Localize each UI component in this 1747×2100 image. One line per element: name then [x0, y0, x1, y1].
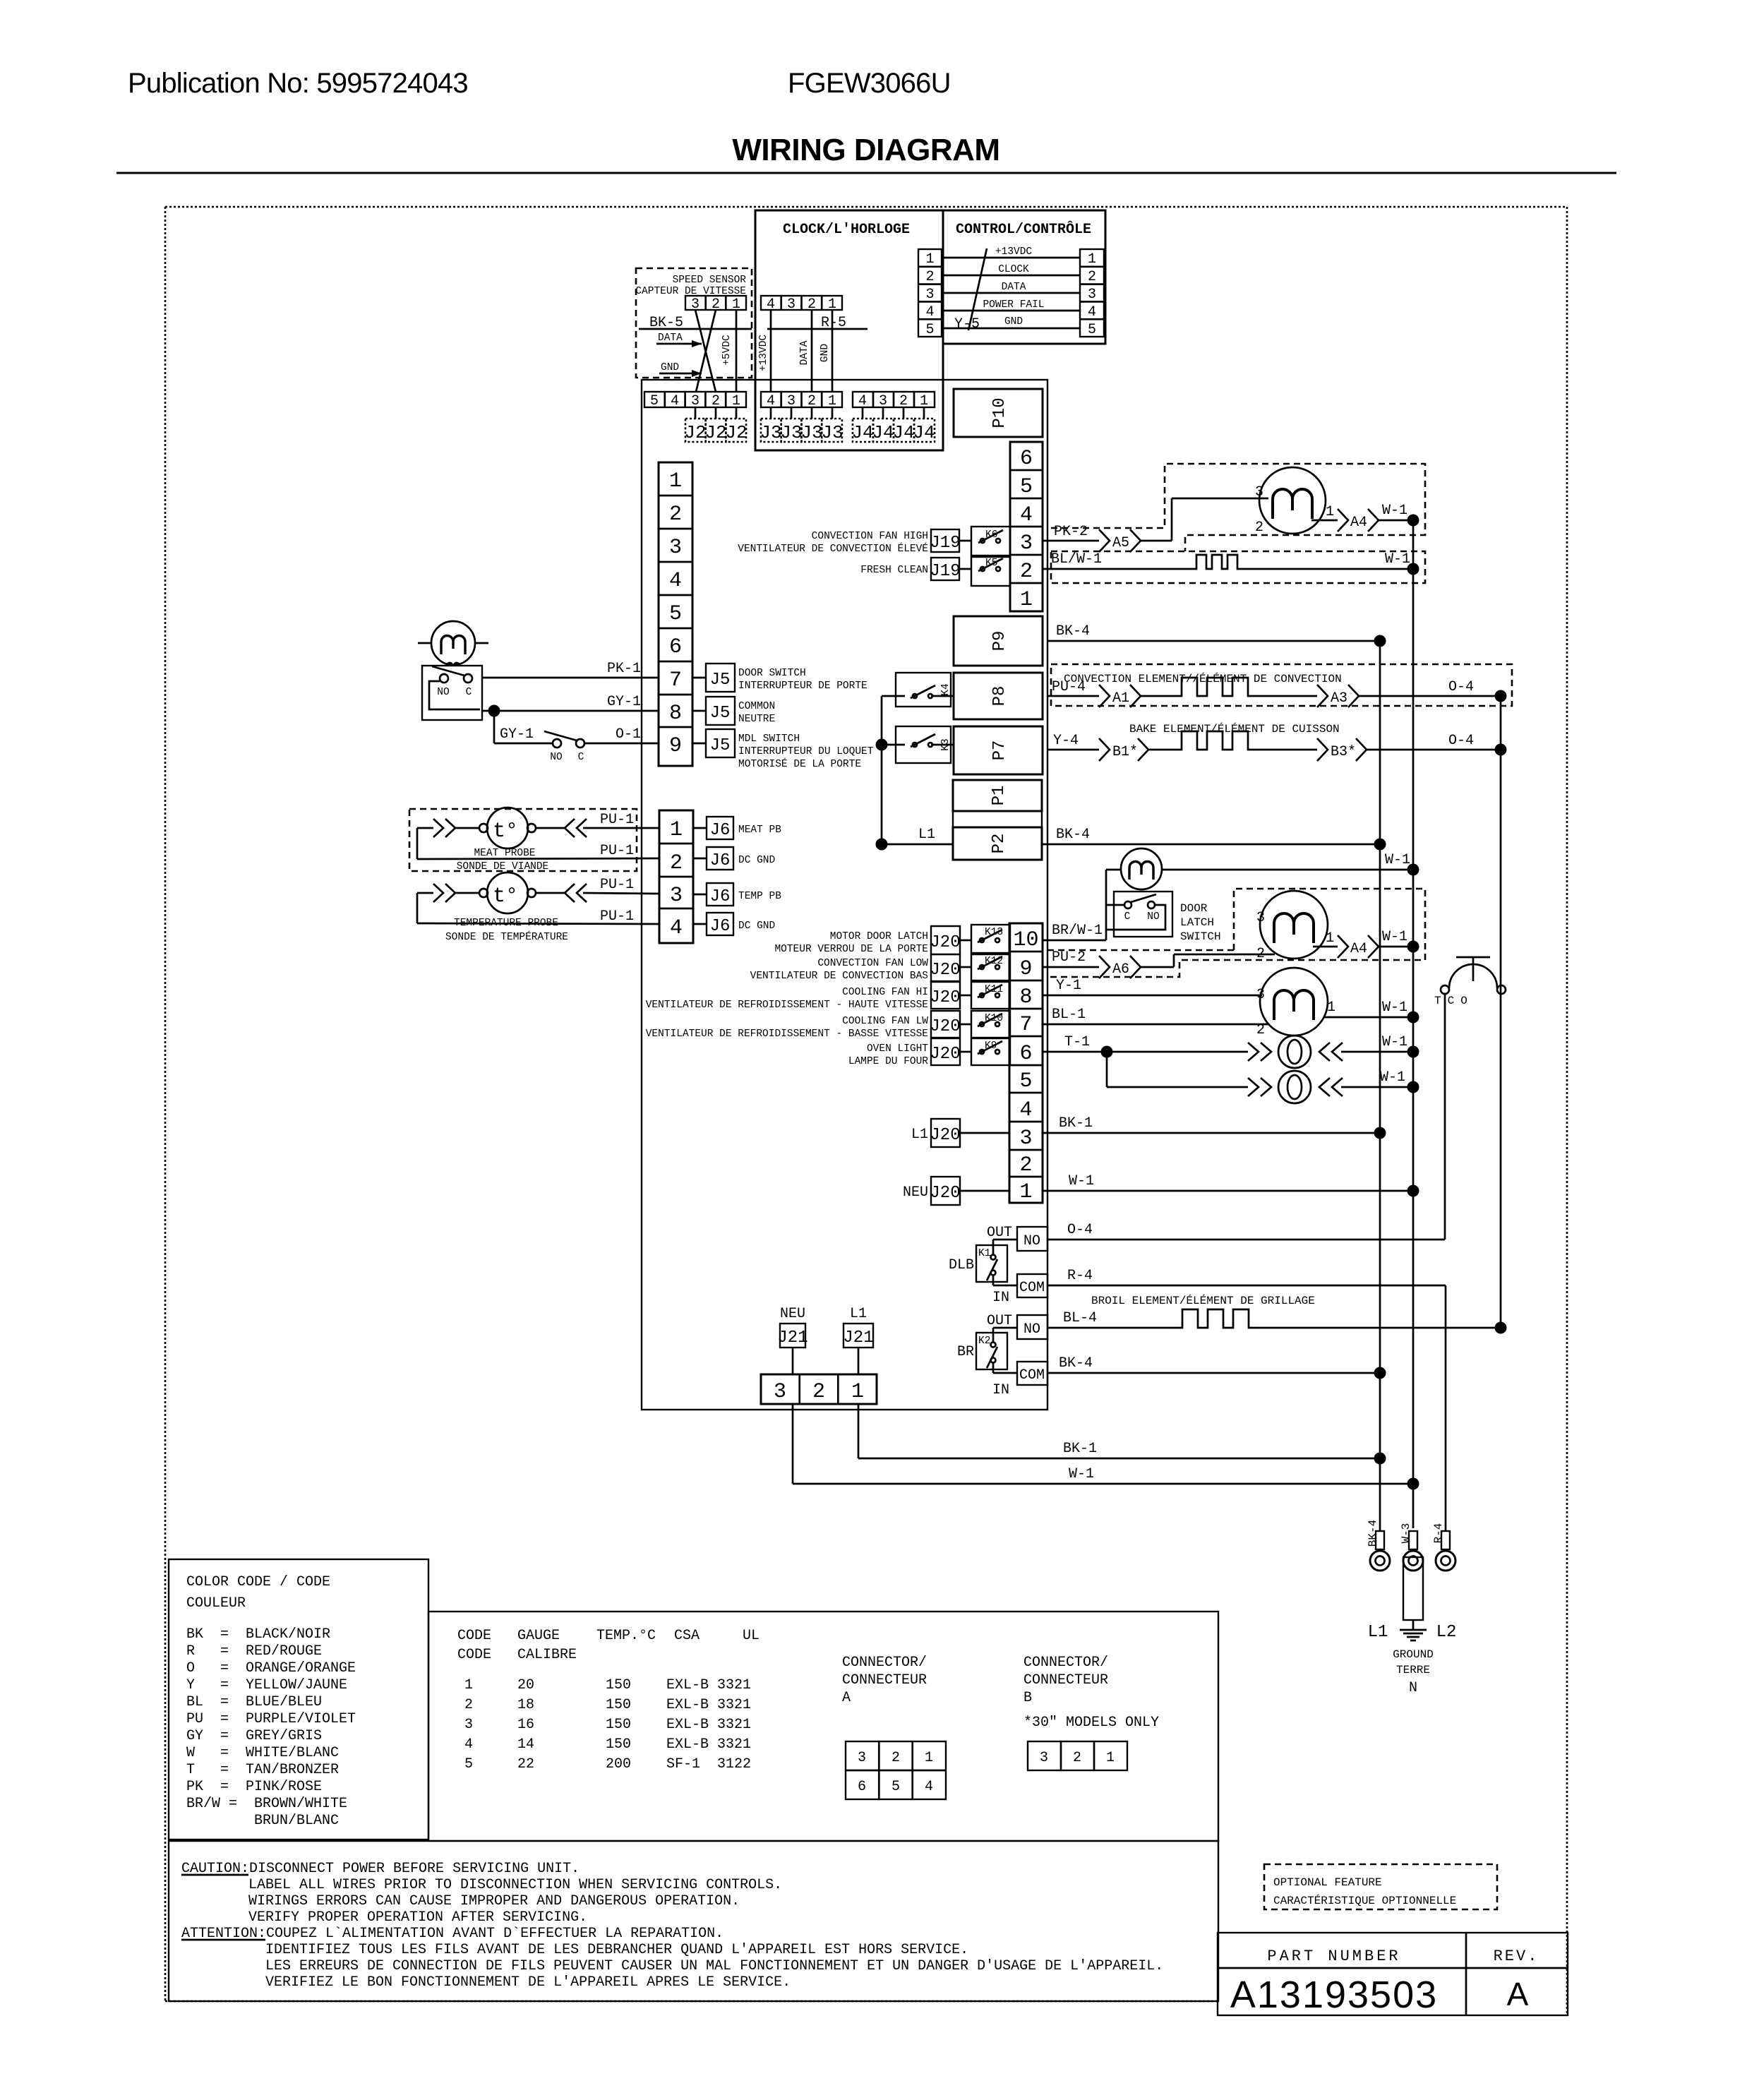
- connector J21 L1: [843, 1306, 873, 1374]
- wire +13VDC clock to control: [942, 246, 1080, 258]
- svg-text:K4: K4: [940, 683, 951, 695]
- svg-text:IDENTIFIEZ TOUS LES FILS AVANT: IDENTIFIEZ TOUS LES FILS AVANT DE LES DE…: [265, 1942, 968, 1958]
- wire W-1 from J21 pin3: [793, 1404, 1419, 1490]
- svg-text:WIRING DIAGRAM: WIRING DIAGRAM: [732, 133, 999, 167]
- svg-text:14: 14: [517, 1736, 534, 1753]
- relay K6: [971, 527, 1010, 556]
- connector J6 pin3 box TEMP PB: [693, 883, 781, 906]
- svg-text:NO: NO: [1023, 1321, 1040, 1338]
- svg-text:W-1: W-1: [1382, 929, 1407, 945]
- wire BK-1 from J20 pin3: [1043, 1115, 1386, 1139]
- svg-text:PU-1: PU-1: [600, 843, 634, 859]
- svg-text:CONNECTOR/: CONNECTOR/: [1023, 1655, 1108, 1671]
- svg-text:A13193503: A13193503: [1230, 1974, 1438, 2016]
- svg-text:BL/W-1: BL/W-1: [1051, 551, 1102, 568]
- svg-text:P7: P7: [990, 740, 1009, 761]
- svg-text:J20: J20: [930, 1184, 960, 1203]
- svg-text:2: 2: [464, 1697, 473, 1713]
- svg-text:PU-4: PU-4: [1052, 679, 1086, 695]
- svg-text:W-1: W-1: [1382, 1034, 1407, 1050]
- svg-text:J3: J3: [760, 422, 781, 443]
- connector J20 convection fan low: [750, 954, 971, 982]
- caution box: [169, 1841, 1218, 2001]
- svg-text:IN: IN: [992, 1382, 1009, 1398]
- svg-text:3: 3: [1088, 287, 1096, 303]
- J2 connector boxes: [684, 407, 747, 443]
- svg-text:CODE: CODE: [457, 1647, 491, 1663]
- svg-text:PK = PINK/ROSE: PK = PINK/ROSE: [186, 1779, 322, 1795]
- svg-text:BR/W = BROWN/WHITE: BR/W = BROWN/WHITE: [186, 1796, 347, 1812]
- svg-text:B1*: B1*: [1112, 744, 1138, 760]
- svg-text:INTERRUPTEUR DU LOQUET: INTERRUPTEUR DU LOQUET: [738, 746, 874, 757]
- svg-text:VENTILATEUR DE CONVECTION ÉLEV: VENTILATEUR DE CONVECTION ÉLEVÉ: [738, 542, 928, 555]
- svg-text:1: 1: [732, 393, 740, 409]
- svg-text:TEMP PB: TEMP PB: [738, 891, 781, 902]
- optional feature legend dashed box: [1264, 1864, 1497, 1909]
- meat probe sensor t: [479, 808, 536, 848]
- BR NO output box: [1017, 1315, 1047, 1339]
- wire Y-4 bake element with B1* B3*: [1047, 722, 1507, 761]
- svg-text:+13VDC: +13VDC: [995, 246, 1033, 258]
- svg-text:PK-1: PK-1: [607, 661, 641, 677]
- wire cooling fan pin1 to W line: [1324, 1000, 1419, 1024]
- svg-text:A5: A5: [1112, 535, 1129, 551]
- connector P10: [954, 389, 1043, 437]
- svg-text:GY-1: GY-1: [607, 694, 641, 710]
- wire DATA: [942, 282, 1080, 293]
- wire optional motor pin1 A4 to W line: [1313, 929, 1419, 958]
- wire CLOCK: [942, 264, 1080, 275]
- connector J19 convection fan high: [738, 529, 972, 555]
- svg-text:LABEL ALL WIRES PRIOR TO DISCO: LABEL ALL WIRES PRIOR TO DISCONNECTION W…: [248, 1877, 782, 1893]
- svg-text:4: 4: [670, 916, 683, 940]
- svg-text:COLOR CODE / CODE: COLOR CODE / CODE: [186, 1574, 330, 1590]
- meat probe dashed box: [409, 809, 637, 871]
- relay K11: [971, 982, 1010, 1009]
- MDL switch NO / C: [494, 726, 584, 763]
- svg-text:6: 6: [858, 1779, 866, 1795]
- relay K4: [882, 673, 954, 707]
- svg-text:BK-4: BK-4: [1367, 1520, 1379, 1547]
- wire R-4 DLB COM to L2: [1047, 1268, 1446, 1531]
- svg-text:EXL-B 3321: EXL-B 3321: [666, 1736, 751, 1753]
- svg-text:3: 3: [774, 1380, 786, 1404]
- wire L1 to P2: [882, 827, 953, 844]
- svg-text:9: 9: [669, 734, 682, 758]
- svg-text:VENTILATEUR DE REFROIDISSEMENT: VENTILATEUR DE REFROIDISSEMENT - BASSE V…: [646, 1028, 928, 1040]
- svg-text:COM: COM: [1019, 1280, 1045, 1296]
- svg-text:REV.: REV.: [1494, 1948, 1539, 1965]
- svg-text:22: 22: [517, 1756, 534, 1772]
- meat probe wires and splices: [417, 819, 659, 872]
- connector P1: [953, 780, 1042, 811]
- svg-text:4: 4: [925, 1779, 933, 1795]
- terminal L1 ring BK-4: [1367, 1520, 1390, 1642]
- svg-text:CONVECTION ELEMENT//ÉLÉMENT DE: CONVECTION ELEMENT//ÉLÉMENT DE CONVECTIO…: [1064, 672, 1342, 685]
- svg-text:NO: NO: [1023, 1233, 1040, 1249]
- svg-text:A1: A1: [1112, 690, 1129, 707]
- wire gauge table box: [428, 1612, 1218, 1841]
- svg-text:J6: J6: [710, 821, 731, 840]
- wire clock pin1 GND: [820, 310, 832, 392]
- oven lamp 2: [1278, 1069, 1419, 1103]
- svg-text:2: 2: [669, 503, 682, 527]
- door latch switch box: [1106, 892, 1221, 943]
- svg-text:200: 200: [606, 1756, 631, 1772]
- svg-text:INTERRUPTEUR DE PORTE: INTERRUPTEUR DE PORTE: [738, 680, 868, 692]
- oven lamp 1: [1278, 1034, 1419, 1068]
- svg-text:3: 3: [1256, 987, 1265, 1003]
- svg-text:2: 2: [899, 393, 908, 409]
- svg-text:1: 1: [828, 393, 836, 409]
- svg-text:FGEW3066U: FGEW3066U: [788, 68, 951, 99]
- svg-text:4: 4: [767, 393, 775, 409]
- thermal cutout TCO: [1434, 957, 1506, 1007]
- svg-text:P9: P9: [990, 631, 1009, 652]
- wire BK-4 BR COM: [1047, 1355, 1386, 1379]
- wire BL-1 cooling fan lw: [1043, 1007, 1268, 1024]
- connector pin column control side (pins 1-5): [1080, 249, 1104, 338]
- svg-text:J6: J6: [710, 851, 731, 870]
- wire GND: [942, 316, 1080, 328]
- svg-text:COM: COM: [1019, 1367, 1045, 1384]
- svg-text:SF-1 3122: SF-1 3122: [666, 1756, 751, 1772]
- svg-text:O-4: O-4: [1448, 733, 1474, 749]
- connector P7: [954, 726, 1043, 774]
- svg-text:UL: UL: [743, 1628, 760, 1644]
- svg-text:GND: GND: [1004, 316, 1023, 328]
- svg-text:W-1: W-1: [1385, 852, 1410, 868]
- svg-text:3: 3: [669, 536, 682, 560]
- svg-text:J6: J6: [710, 917, 731, 936]
- svg-text:3: 3: [464, 1717, 473, 1733]
- motor M cooling fan: [1256, 968, 1328, 1038]
- svg-text:J19: J19: [930, 562, 960, 581]
- board J3 pin row (4 3 2 1): [761, 392, 842, 409]
- svg-text:6: 6: [1019, 1042, 1032, 1066]
- connector J5 pin7 box and label DOOR SWITCH: [692, 664, 868, 692]
- svg-text:150: 150: [606, 1697, 631, 1713]
- svg-text:3: 3: [787, 296, 796, 313]
- main control board outline: [642, 380, 1047, 1410]
- svg-text:SPEED SENSOR: SPEED SENSOR: [673, 275, 747, 286]
- svg-text:BL-4: BL-4: [1063, 1310, 1097, 1326]
- relay K1 DLB: [949, 1225, 1016, 1306]
- convection element dashed box: [1051, 664, 1512, 706]
- wire PU-4 convection element with A1 A3: [1047, 678, 1507, 707]
- svg-text:3: 3: [858, 1750, 866, 1766]
- svg-text:L1: L1: [911, 1127, 928, 1143]
- svg-text:COULEUR: COULEUR: [186, 1595, 246, 1612]
- svg-text:CONTROL/CONTRÔLE: CONTROL/CONTRÔLE: [956, 221, 1091, 238]
- svg-text:3: 3: [1255, 484, 1263, 500]
- optional dashed outline door latch drive motor: [1047, 889, 1425, 977]
- svg-text:16: 16: [517, 1717, 534, 1733]
- svg-text:1: 1: [920, 393, 928, 409]
- svg-text:5: 5: [925, 322, 934, 338]
- svg-text:CARACTÉRISTIQUE OPTIONNELLE: CARACTÉRISTIQUE OPTIONNELLE: [1273, 1894, 1456, 1907]
- bundle label R-5: [767, 315, 868, 331]
- svg-text:J2: J2: [684, 422, 706, 443]
- connector J6 pin1 box MEAT PB: [693, 817, 781, 840]
- temperature probe wires and splices: [417, 884, 659, 943]
- svg-text:DC GND: DC GND: [738, 855, 775, 866]
- relay K13: [971, 925, 1010, 953]
- svg-text:J5: J5: [710, 704, 731, 723]
- control module box CONTROL/CONTROLE: [943, 210, 1105, 344]
- wire oven lamp 2 branch: [1107, 1052, 1271, 1096]
- wire BL/W-1 fresh clean heater: [1043, 551, 1419, 575]
- svg-text:DATA: DATA: [658, 332, 683, 344]
- svg-text:5: 5: [1088, 322, 1096, 338]
- svg-text:NEU: NEU: [780, 1306, 805, 1322]
- svg-text:2: 2: [891, 1750, 900, 1766]
- svg-text:COOLING FAN HI: COOLING FAN HI: [842, 987, 928, 998]
- svg-text:BK-1: BK-1: [1063, 1441, 1097, 1457]
- relay K5: [971, 557, 1010, 586]
- svg-text:GND: GND: [820, 344, 831, 362]
- svg-text:5: 5: [1020, 475, 1033, 499]
- svg-text:MOTOR DOOR LATCH: MOTOR DOOR LATCH: [830, 931, 928, 942]
- wire BK-4 from P9: [1047, 623, 1386, 647]
- svg-text:J5: J5: [710, 736, 731, 755]
- wire BR/W-1 to door latch: [1043, 870, 1121, 940]
- svg-text:BK = BLACK/NOIR: BK = BLACK/NOIR: [186, 1626, 330, 1643]
- svg-text:VERIFIEZ LE BON FONCTIONNEMENT: VERIFIEZ LE BON FONCTIONNEMENT DE L'APPA…: [265, 1974, 791, 1991]
- svg-text:O-4: O-4: [1448, 679, 1474, 695]
- svg-text:FRESH CLEAN: FRESH CLEAN: [860, 565, 928, 576]
- wire drop to MDL switch: [493, 711, 496, 743]
- svg-text:P10: P10: [990, 397, 1009, 428]
- connector J20 cooling fan hi: [646, 982, 971, 1011]
- svg-text:J20: J20: [930, 1045, 960, 1064]
- svg-text:OVEN LIGHT: OVEN LIGHT: [867, 1043, 928, 1055]
- svg-text:DATA: DATA: [1002, 282, 1026, 293]
- node W vertical line: [1412, 520, 1415, 1528]
- svg-text:T = TAN/BRONZER: T = TAN/BRONZER: [186, 1762, 339, 1778]
- svg-text:2: 2: [812, 1380, 825, 1404]
- svg-text:CLOCK: CLOCK: [998, 264, 1029, 275]
- svg-text:5: 5: [669, 602, 682, 626]
- svg-text:O-4: O-4: [1067, 1222, 1093, 1238]
- board pin column P10 side (pins 6-1): [1010, 442, 1043, 612]
- svg-text:IN: IN: [992, 1290, 1009, 1306]
- svg-text:2: 2: [1020, 560, 1033, 584]
- svg-text:BRUN/BLANC: BRUN/BLANC: [186, 1813, 339, 1829]
- board pin column J6 side (pins 1-4): [659, 810, 693, 943]
- svg-text:EXL-B 3321: EXL-B 3321: [666, 1677, 751, 1693]
- svg-text:4: 4: [669, 569, 682, 593]
- svg-text:7: 7: [1019, 1013, 1032, 1037]
- svg-text:3: 3: [1019, 1127, 1032, 1151]
- svg-text:EXL-B 3321: EXL-B 3321: [666, 1717, 751, 1733]
- svg-text:1: 1: [1326, 930, 1334, 947]
- connector B legend: [1023, 1655, 1159, 1770]
- svg-text:A3: A3: [1331, 690, 1347, 707]
- svg-text:J3: J3: [800, 422, 822, 443]
- wire clock pin2 DATA: [799, 310, 812, 392]
- svg-text:J5: J5: [710, 671, 731, 690]
- svg-text:Publication No: 5995724043: Publication No: 5995724043: [128, 68, 468, 99]
- svg-text:4: 4: [464, 1736, 473, 1753]
- svg-text:3: 3: [1256, 910, 1265, 926]
- svg-text:BR/W-1: BR/W-1: [1052, 923, 1103, 939]
- svg-text:C: C: [578, 752, 584, 763]
- door switch motor M: [418, 621, 488, 666]
- svg-text:J6: J6: [710, 887, 731, 906]
- title underline: [116, 172, 1616, 174]
- clock internal J3 top pin row (4 3 2 1): [761, 296, 842, 313]
- svg-text:R = RED/ROUGE: R = RED/ROUGE: [186, 1643, 322, 1660]
- svg-text:9: 9: [1019, 957, 1032, 981]
- svg-text:SONDE DE TEMPÉRATURE: SONDE DE TEMPÉRATURE: [445, 930, 568, 943]
- svg-text:J20: J20: [930, 988, 960, 1007]
- spacer box between P1 and P2: [953, 811, 1042, 827]
- svg-text:CSA: CSA: [674, 1628, 700, 1644]
- svg-text:18: 18: [517, 1697, 534, 1713]
- svg-text:VENTILATEUR DE CONVECTION BAS: VENTILATEUR DE CONVECTION BAS: [750, 971, 928, 982]
- wire motor1 pin1 to A4 and W line: [1311, 503, 1419, 532]
- clock module box CLOCK/L'HORLOGE: [755, 210, 943, 450]
- svg-text:2: 2: [808, 393, 816, 409]
- svg-text:P2: P2: [990, 834, 1009, 854]
- motor M door latch drive (optional): [1256, 891, 1328, 962]
- svg-text:OUT: OUT: [987, 1313, 1012, 1329]
- svg-text:NEUTRE: NEUTRE: [738, 714, 775, 725]
- part number title block: [1218, 1933, 1568, 2016]
- svg-text:3: 3: [879, 393, 887, 409]
- svg-text:A: A: [842, 1690, 851, 1706]
- svg-text:150: 150: [606, 1677, 631, 1693]
- svg-text:EXL-B 3321: EXL-B 3321: [666, 1697, 751, 1713]
- svg-text:N: N: [1409, 1680, 1417, 1696]
- label GND with arrow: [659, 362, 702, 377]
- BR COM input box: [1017, 1362, 1047, 1385]
- svg-text:SWITCH: SWITCH: [1180, 930, 1221, 943]
- svg-text:GROUND: GROUND: [1393, 1648, 1434, 1661]
- wire POWER FAIL: [942, 299, 1080, 311]
- svg-text:TEMPERATURE PROBE: TEMPERATURE PROBE: [454, 918, 558, 929]
- svg-text:BROIL ELEMENT/ÉLÉMENT DE GRILL: BROIL ELEMENT/ÉLÉMENT DE GRILLAGE: [1091, 1294, 1315, 1307]
- svg-text:2: 2: [712, 393, 720, 409]
- svg-text:OPTIONAL FEATURE: OPTIONAL FEATURE: [1273, 1876, 1382, 1889]
- wire door latch motor to W line: [1162, 852, 1419, 876]
- wire GY-1 to pin8 with junction: [482, 694, 659, 717]
- svg-text:1: 1: [669, 469, 682, 493]
- wire W-1 from J20 pin1: [1043, 1173, 1419, 1197]
- board pin column J20 side (pins 10-1): [1009, 923, 1043, 1204]
- svg-text:PU = PURPLE/VIOLET: PU = PURPLE/VIOLET: [186, 1711, 356, 1727]
- svg-text:DC GND: DC GND: [738, 920, 775, 932]
- svg-text:J20: J20: [930, 933, 960, 952]
- svg-text:5: 5: [1019, 1069, 1032, 1093]
- svg-text:W = WHITE/BLANC: W = WHITE/BLANC: [186, 1745, 339, 1761]
- svg-text:J19: J19: [930, 534, 960, 553]
- svg-text:1: 1: [1106, 1750, 1115, 1766]
- wire sensor pin1 to J2 pin1: [736, 310, 738, 392]
- svg-text:SONDE DE VIANDE: SONDE DE VIANDE: [457, 861, 549, 872]
- svg-text:MEAT PROBE: MEAT PROBE: [474, 848, 535, 859]
- svg-text:J20: J20: [930, 961, 960, 980]
- svg-text:150: 150: [606, 1736, 631, 1753]
- svg-text:COOLING FAN LW: COOLING FAN LW: [842, 1016, 928, 1027]
- svg-text:CONNECTEUR: CONNECTEUR: [1023, 1672, 1108, 1688]
- svg-text:MDL SWITCH: MDL SWITCH: [738, 733, 800, 745]
- door latch motor M: [1121, 848, 1162, 889]
- svg-text:2: 2: [670, 851, 683, 875]
- svg-text:K1: K1: [978, 1248, 990, 1259]
- svg-text:PU-1: PU-1: [600, 877, 634, 893]
- wire Y-1 cooling fan hi: [1043, 978, 1262, 995]
- svg-text:PU-1: PU-1: [600, 812, 634, 828]
- svg-text:L1: L1: [850, 1306, 867, 1322]
- svg-text:8: 8: [1019, 985, 1032, 1009]
- svg-text:Y = YELLOW/JAUNE: Y = YELLOW/JAUNE: [186, 1677, 347, 1693]
- svg-text:J20: J20: [930, 1126, 960, 1145]
- svg-text:W-1: W-1: [1069, 1173, 1094, 1189]
- svg-text:4: 4: [1088, 304, 1096, 320]
- connector J20 oven light: [848, 1038, 971, 1067]
- svg-text:TCO: TCO: [1434, 995, 1474, 1007]
- svg-text:1: 1: [925, 1750, 933, 1766]
- svg-text:POWER FAIL: POWER FAIL: [983, 299, 1044, 311]
- svg-text:BL-1: BL-1: [1052, 1007, 1086, 1023]
- svg-text:L1: L1: [1368, 1623, 1388, 1642]
- connector J5 pin9 box and label MDL SWITCH: [692, 729, 874, 770]
- svg-text:2: 2: [1088, 269, 1096, 285]
- svg-text:L2: L2: [1436, 1623, 1457, 1642]
- motor M convection fan high: [1255, 467, 1326, 536]
- svg-text:CODE: CODE: [457, 1628, 491, 1644]
- svg-text:DOOR: DOOR: [1180, 902, 1208, 915]
- svg-text:4: 4: [925, 304, 934, 320]
- svg-text:J2: J2: [704, 422, 726, 443]
- connector P8: [954, 673, 1043, 719]
- svg-text:1: 1: [1020, 588, 1033, 612]
- svg-text:Y-1: Y-1: [1056, 978, 1081, 994]
- svg-text:WIRINGS ERRORS CAN CAUSE IMPRO: WIRINGS ERRORS CAN CAUSE IMPROPER AND DA…: [248, 1893, 740, 1909]
- relay K12: [971, 954, 1010, 980]
- svg-text:W-1: W-1: [1380, 1069, 1405, 1086]
- svg-text:1: 1: [1019, 1180, 1032, 1204]
- J3 connector boxes: [760, 407, 843, 443]
- wire sensor pin3 crossing to J2 pin2: [695, 310, 716, 392]
- node BK vertical line: [1379, 641, 1381, 1531]
- svg-text:PART NUMBER: PART NUMBER: [1267, 1948, 1400, 1965]
- svg-text:BK-4: BK-4: [1056, 623, 1090, 640]
- svg-text:PK-2: PK-2: [1054, 524, 1088, 540]
- relay K9: [971, 1038, 1010, 1065]
- wire PU-2 with connector A6: [1043, 949, 1275, 978]
- svg-text:B3*: B3*: [1331, 744, 1356, 760]
- svg-text:W-1: W-1: [1069, 1466, 1094, 1482]
- terminal ground W-3: [1393, 1523, 1434, 1696]
- svg-text:BR: BR: [957, 1344, 974, 1360]
- svg-text:2: 2: [1073, 1750, 1081, 1766]
- wire sensor pin2 crossing to J2 pin3: [696, 310, 716, 392]
- svg-text:MOTORISÉ DE LA PORTE: MOTORISÉ DE LA PORTE: [738, 757, 861, 770]
- svg-text:J21: J21: [777, 1328, 808, 1348]
- connector P9: [954, 616, 1043, 666]
- svg-text:6: 6: [1020, 447, 1033, 471]
- connector A legend: [842, 1655, 946, 1799]
- color code legend box: [169, 1559, 428, 1840]
- svg-text:4: 4: [1019, 1098, 1032, 1122]
- svg-text:NO: NO: [437, 687, 449, 698]
- svg-text:A4: A4: [1350, 941, 1367, 957]
- svg-text:J4: J4: [913, 422, 935, 443]
- svg-text:DOOR SWITCH: DOOR SWITCH: [738, 668, 806, 679]
